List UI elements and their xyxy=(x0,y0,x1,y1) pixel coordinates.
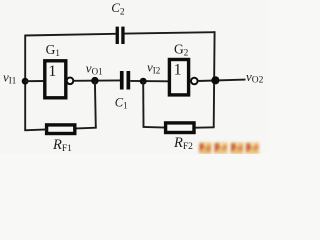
wire left vertical xyxy=(24,35,26,131)
wire C1 to G2 input xyxy=(130,80,168,82)
wire vO1 down to RF1 xyxy=(94,81,97,128)
watermark (colored blur blobs, decorative) xyxy=(199,143,259,155)
wire RF2 left xyxy=(143,126,166,129)
node vO1 junction dot xyxy=(91,77,99,85)
resistor RF2 xyxy=(166,123,194,133)
wire top feedback left segment xyxy=(25,34,116,36)
resistor RF1 xyxy=(47,125,75,134)
svg-text:1: 1 xyxy=(48,63,56,80)
wire G1 input xyxy=(25,80,44,82)
wire RF2 right xyxy=(196,126,215,128)
op-amp gate G1 box xyxy=(45,61,66,98)
node vI2 junction dot xyxy=(140,78,147,85)
inverter bubble G2 xyxy=(191,78,198,85)
op-amp gate G2 box xyxy=(169,60,188,95)
node vO2 junction dot xyxy=(211,76,219,84)
wire G1 output to C1 xyxy=(74,79,120,81)
svg-text:1: 1 xyxy=(174,62,182,79)
wire RF1 right xyxy=(76,127,96,130)
node vI1 junction dot xyxy=(22,78,29,85)
wire G2 output to vO2 xyxy=(198,80,246,81)
inverter bubble G1 xyxy=(67,78,74,85)
wire vI2 down to RF2 xyxy=(142,81,144,127)
wire right vertical xyxy=(213,31,216,127)
capacitor C2 xyxy=(116,27,125,44)
capacitor C1 xyxy=(120,71,130,90)
wire top feedback right segment xyxy=(124,32,214,33)
wire RF1 left (bottom-left corner) xyxy=(24,128,47,131)
paper background xyxy=(0,0,268,154)
